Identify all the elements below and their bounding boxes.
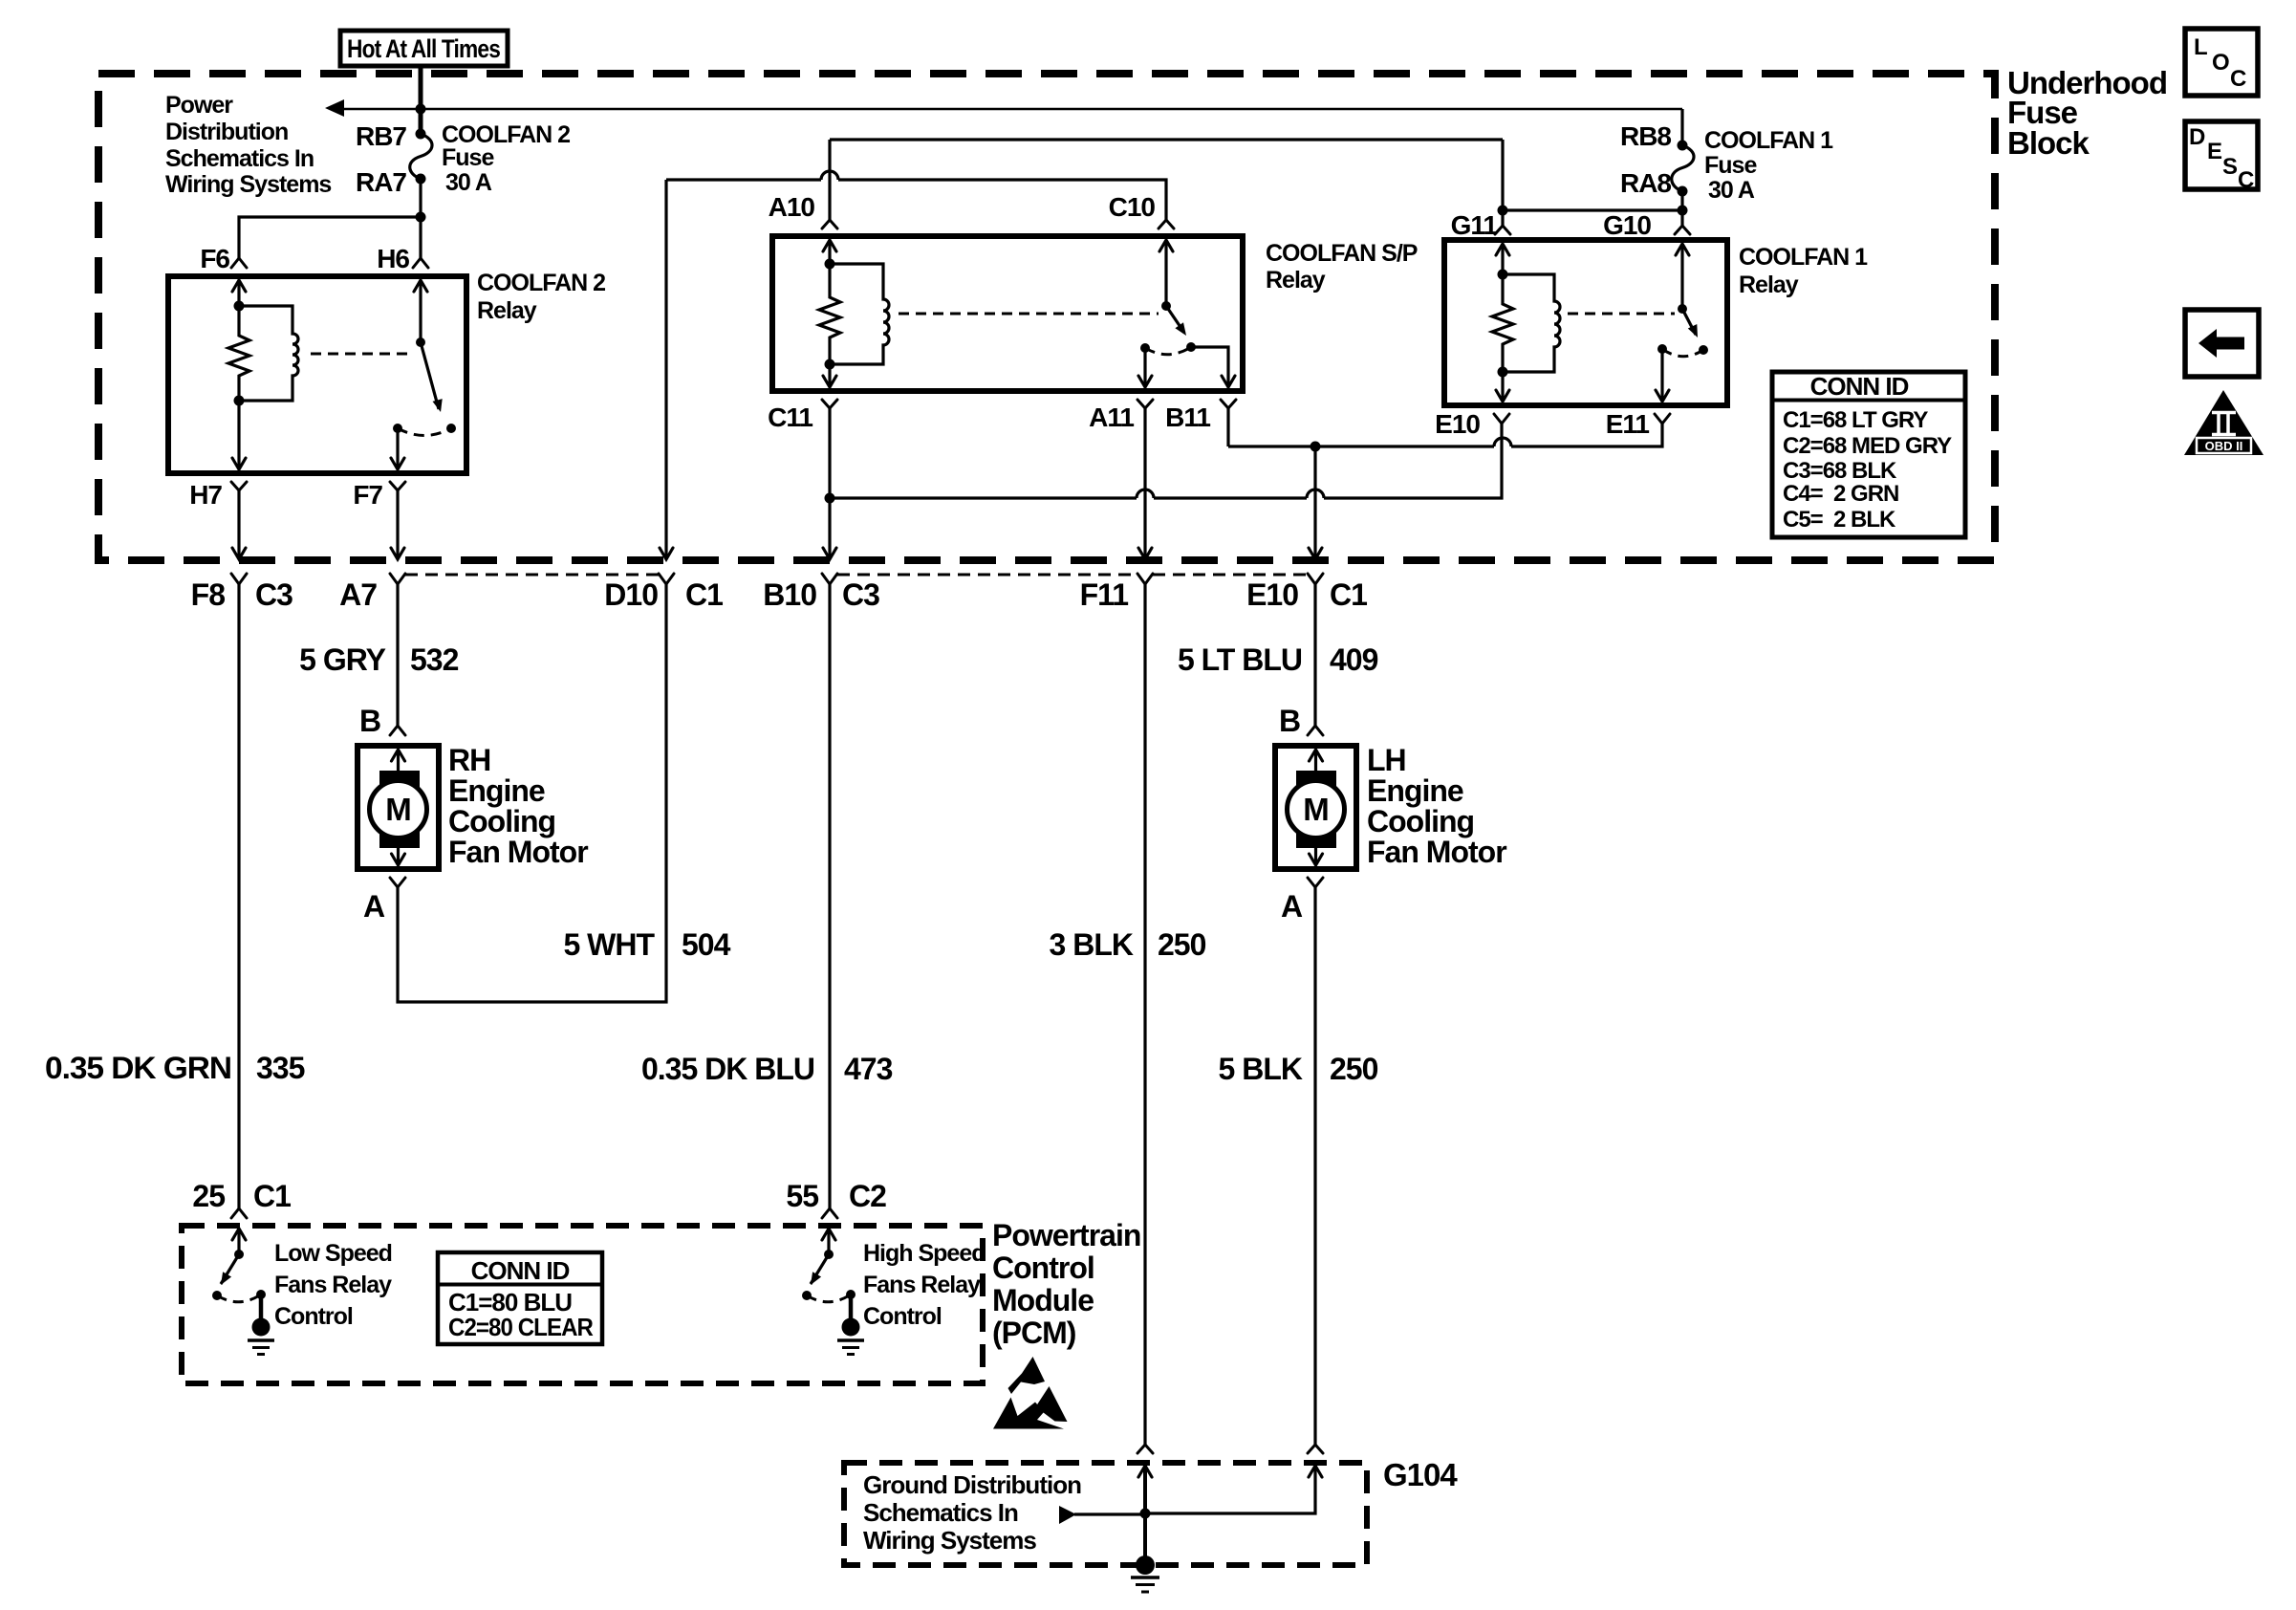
connector D10/C1 xyxy=(659,574,674,584)
svg-text:532: 532 xyxy=(410,642,459,677)
label Low Speed Fans Relay Control xyxy=(274,1240,392,1330)
connector F8/C3 xyxy=(231,574,247,584)
dashed actuation link CF1 xyxy=(1568,313,1675,315)
svg-text:RA8: RA8 xyxy=(1620,168,1671,198)
svg-text:0.35 DK BLU: 0.35 DK BLU xyxy=(641,1052,814,1086)
svg-text:C: C xyxy=(2230,66,2246,92)
connector B10/C3 xyxy=(822,574,837,584)
svg-text:G11: G11 xyxy=(1451,210,1498,240)
svg-text:A7: A7 xyxy=(339,577,377,612)
svg-text:250: 250 xyxy=(1158,927,1206,962)
node junction at H6 feed xyxy=(416,104,426,115)
label E10 C1 xyxy=(1246,577,1367,612)
svg-text:High Speed: High Speed xyxy=(863,1240,986,1267)
svg-text:COOLFAN 2: COOLFAN 2 xyxy=(477,270,605,296)
conn id table fuse block xyxy=(1772,372,1965,537)
svg-text:F8: F8 xyxy=(191,577,226,612)
wire coil to H7 with arrow xyxy=(232,401,246,469)
svg-text:C11: C11 xyxy=(768,402,812,432)
svg-text:504: 504 xyxy=(682,927,731,962)
arrow B10 wire exits fuse block xyxy=(823,548,836,559)
label B10 C3 xyxy=(763,577,879,612)
wire A10 feed from fuse xyxy=(830,140,1503,220)
connector fork E11 xyxy=(1655,414,1670,424)
svg-text:C2=68 MED GRY: C2=68 MED GRY xyxy=(1783,433,1952,459)
wire from Hot At All Times down to RB7 xyxy=(419,66,423,134)
connector E10/C1 xyxy=(1308,574,1323,584)
svg-text:F7: F7 xyxy=(353,480,382,510)
svg-text:C2: C2 xyxy=(849,1179,886,1213)
svg-text:Fans Relay: Fans Relay xyxy=(863,1272,981,1298)
label Powertrain Control Module PCM xyxy=(992,1218,1140,1350)
wire coil to C11 with arrow xyxy=(823,364,836,387)
wire switch moving contact to B11 xyxy=(1191,347,1235,387)
svg-text:COOLFAN 1: COOLFAN 1 xyxy=(1739,244,1868,271)
svg-text:25: 25 xyxy=(192,1179,225,1213)
connector fork H7 xyxy=(231,482,247,558)
svg-text:Distribution: Distribution xyxy=(165,119,288,145)
svg-text:G104: G104 xyxy=(1383,1457,1458,1492)
connector fork C11 xyxy=(822,400,837,558)
svg-text:L: L xyxy=(2194,34,2207,60)
svg-text:B: B xyxy=(359,704,380,738)
svg-text:C10: C10 xyxy=(1109,192,1156,222)
svg-text:335: 335 xyxy=(256,1051,305,1085)
svg-text:CONN ID: CONN ID xyxy=(471,1256,570,1285)
wire ground distribution arrow xyxy=(1059,1506,1145,1524)
switch low speed fans relay control xyxy=(212,1250,266,1302)
arrow D10 wire exits fuse block xyxy=(660,548,673,559)
icon DESC box xyxy=(2185,121,2258,193)
svg-text:Powertrain: Powertrain xyxy=(992,1218,1140,1252)
fuse COOLFAN 1 Fuse 30 A xyxy=(1672,141,1694,197)
relay COOLFAN S/P box xyxy=(772,236,1243,391)
svg-text:E10: E10 xyxy=(1435,409,1480,439)
svg-text:F6: F6 xyxy=(200,244,229,273)
label 0.35 DK BLU 473 xyxy=(641,1052,893,1086)
svg-text:Relay: Relay xyxy=(477,297,537,324)
label 5 GRY 532 xyxy=(299,642,458,677)
wire F8 to PCM 25 xyxy=(237,584,240,1208)
svg-text:Engine: Engine xyxy=(1367,773,1463,808)
arrow A7 wire exits fuse block xyxy=(391,548,404,559)
switch relay S/P xyxy=(1140,301,1196,355)
svg-text:C1=68 LT GRY: C1=68 LT GRY xyxy=(1783,407,1928,433)
svg-text:M: M xyxy=(385,792,411,827)
switch high speed fans relay control xyxy=(802,1250,856,1302)
svg-text:A10: A10 xyxy=(769,192,815,222)
fuse COOLFAN 2 Fuse 30 A xyxy=(410,129,432,185)
wire B10 to PCM 55 xyxy=(828,584,831,1208)
svg-text:C3=68 BLK: C3=68 BLK xyxy=(1783,458,1897,484)
connector fork F6 xyxy=(231,258,247,268)
svg-text:30 A: 30 A xyxy=(445,169,492,196)
svg-text:C5= 2 BLK: C5= 2 BLK xyxy=(1783,507,1896,533)
svg-text:C3: C3 xyxy=(842,577,879,612)
svg-text:M: M xyxy=(1303,792,1329,827)
node coil bottom CF1 xyxy=(1498,367,1508,378)
pin arrow A10 into relay xyxy=(823,240,836,264)
svg-text:Relay: Relay xyxy=(1266,267,1326,294)
svg-text:Hot At All Times: Hot At All Times xyxy=(347,34,500,63)
svg-text:(PCM): (PCM) xyxy=(992,1316,1076,1350)
pin arrow C10 into relay xyxy=(1159,240,1173,306)
svg-text:250: 250 xyxy=(1330,1052,1378,1086)
label LH Engine Cooling Fan Motor xyxy=(1367,743,1506,869)
svg-text:Power: Power xyxy=(165,92,233,119)
label COOLFAN 2 Fuse 30 A xyxy=(442,121,570,196)
svg-text:RB7: RB7 xyxy=(356,121,406,151)
svg-text:H6: H6 xyxy=(377,244,409,273)
svg-text:55: 55 xyxy=(786,1179,818,1213)
svg-text:Fuse: Fuse xyxy=(1704,152,1757,179)
svg-text:CONN ID: CONN ID xyxy=(1810,372,1909,401)
svg-text:C2=80 CLEAR: C2=80 CLEAR xyxy=(448,1313,594,1341)
label 5 BLK 250 xyxy=(1219,1052,1378,1086)
wire B11/E11 link to LH fan feed xyxy=(1228,424,1662,446)
label 5 WHT 504 xyxy=(563,927,730,962)
wire D10 riser and C10 feed xyxy=(666,171,1166,558)
label D10 C1 xyxy=(604,577,723,612)
wire C11/E10 ground-side link xyxy=(830,424,1502,498)
switch relay 1 xyxy=(393,337,456,436)
pin arrow F6 into relay xyxy=(232,280,246,306)
svg-text:Engine: Engine xyxy=(448,773,545,808)
svg-text:Block: Block xyxy=(2007,125,2090,161)
connector fork G10 xyxy=(1675,226,1690,234)
svg-text:Ground Distribution: Ground Distribution xyxy=(863,1470,1081,1499)
node junction G104 xyxy=(1140,1509,1151,1519)
svg-text:Module: Module xyxy=(992,1283,1094,1317)
label Ground Distribution Schematics In Wiring Systems xyxy=(863,1470,1081,1555)
svg-text:COOLFAN 1: COOLFAN 1 xyxy=(1704,127,1833,154)
connector fork PCM 55 xyxy=(822,1208,837,1218)
conn id table PCM xyxy=(438,1252,602,1344)
label 5 LT BLU 409 xyxy=(1178,642,1378,677)
ground G104 xyxy=(1131,1556,1159,1592)
node coil top S/P xyxy=(825,259,835,270)
pin arrow F11 into G104 xyxy=(1138,1466,1152,1557)
connector fork B11 xyxy=(1221,400,1236,446)
wire H6 drop xyxy=(419,217,422,258)
wire A7 to RH motor B xyxy=(396,584,399,726)
svg-text:RH: RH xyxy=(448,743,490,777)
svg-text:LH: LH xyxy=(1367,743,1406,777)
node junction G11 xyxy=(1498,206,1508,216)
svg-text:Relay: Relay xyxy=(1739,272,1799,298)
svg-text:Schematics In: Schematics In xyxy=(165,145,314,172)
svg-text:A: A xyxy=(363,889,385,924)
motor RH engine cooling fan xyxy=(357,746,439,869)
svg-text:Cooling: Cooling xyxy=(1367,804,1474,838)
svg-text:C4= 2 GRN: C4= 2 GRN xyxy=(1783,481,1898,507)
label RH Engine Cooling Fan Motor xyxy=(448,743,588,869)
pin arrow 55 into PCM xyxy=(822,1229,835,1254)
ground distribution dashed box G104 xyxy=(844,1463,1367,1565)
esd symbol xyxy=(993,1357,1068,1429)
svg-text:Cooling: Cooling xyxy=(448,804,555,838)
connector dashed line B10 to F11 xyxy=(837,574,1137,577)
icon LOC box xyxy=(2185,29,2258,96)
pin arrow 25 into PCM xyxy=(232,1229,246,1254)
resistor CF1 coil shunt xyxy=(1492,274,1513,372)
arrow F8 wire exits fuse block xyxy=(232,548,246,559)
relay COOLFAN 1 box xyxy=(1444,240,1727,405)
label 25 C1 xyxy=(192,1179,291,1213)
svg-text:5 LT BLU: 5 LT BLU xyxy=(1178,642,1302,677)
svg-text:A: A xyxy=(1281,889,1303,924)
label 0.35 DK GRN 335 xyxy=(45,1051,305,1085)
connector fork PCM 25 xyxy=(231,1208,247,1218)
wire switch output A11 with arrow xyxy=(1138,348,1152,387)
svg-text:Fans Relay: Fans Relay xyxy=(274,1272,392,1298)
label COOLFAN 1 Fuse 30 A xyxy=(1704,127,1833,204)
svg-text:OBD II: OBD II xyxy=(2205,439,2243,453)
ground high speed control xyxy=(837,1295,864,1355)
svg-text:3 BLK: 3 BLK xyxy=(1050,927,1134,962)
node coil top CF1 xyxy=(1498,270,1508,280)
node coil bottom S/P xyxy=(825,359,835,370)
motor LH engine cooling fan xyxy=(1275,746,1356,869)
connector fork C10 xyxy=(1159,220,1174,228)
node coil top xyxy=(234,301,245,312)
svg-text:Fan Motor: Fan Motor xyxy=(448,835,588,869)
label F8 C3 xyxy=(191,577,292,612)
power distribution feed line xyxy=(342,108,1682,111)
svg-text:Control: Control xyxy=(863,1303,942,1330)
connector fork LH motor B xyxy=(1308,726,1323,735)
svg-text:B10: B10 xyxy=(763,577,816,612)
connector fork RH motor B xyxy=(390,726,405,735)
svg-text:0.35 DK GRN: 0.35 DK GRN xyxy=(45,1051,231,1085)
svg-text:E10: E10 xyxy=(1246,577,1298,612)
svg-text:C3: C3 xyxy=(255,577,292,612)
node junction C11 to E10 link xyxy=(825,493,835,504)
arrow F11 wire exits fuse block xyxy=(1138,548,1152,559)
svg-text:B11: B11 xyxy=(1165,402,1210,432)
connector fork H6 xyxy=(413,258,428,268)
svg-text:Schematics In: Schematics In xyxy=(863,1498,1018,1527)
svg-text:S: S xyxy=(2222,154,2238,180)
ground low speed control xyxy=(248,1295,274,1355)
PCM dashed box xyxy=(182,1226,983,1383)
underhood fuse block dashed box xyxy=(98,74,1995,560)
pin arrow G10 into relay xyxy=(1676,244,1689,309)
node coil bottom xyxy=(234,396,245,406)
coil CF1 winding xyxy=(1503,274,1560,372)
dashed actuation link S/P xyxy=(899,313,1159,315)
wire F11 to G104 xyxy=(1143,584,1146,1445)
pin arrow H6 into relay xyxy=(414,280,427,342)
switch relay CF1 xyxy=(1657,304,1708,357)
svg-text:473: 473 xyxy=(844,1052,893,1086)
arrow E10 wire exits fuse block xyxy=(1309,548,1322,559)
connector dashed line A7 to D10 xyxy=(405,574,659,577)
connector fork A11 xyxy=(1137,400,1153,558)
wire switch output E11 with arrow xyxy=(1656,349,1669,402)
label High Speed Fans Relay Control xyxy=(863,1240,986,1330)
label COOLFAN 1 Relay xyxy=(1739,244,1868,298)
pin arrow G11 into relay xyxy=(1496,244,1509,274)
node junction F6/H6 xyxy=(416,212,426,223)
svg-text:Fuse: Fuse xyxy=(442,144,494,171)
wire RA8 to G11/G10 xyxy=(1503,140,1682,226)
svg-text:RB8: RB8 xyxy=(1620,121,1671,151)
svg-text:D10: D10 xyxy=(604,577,658,612)
connector F11 xyxy=(1137,574,1153,584)
wire LH motor A to G104 xyxy=(1313,887,1316,1445)
Hot At All Times box xyxy=(340,31,508,66)
coil S/P winding xyxy=(830,264,889,364)
connector dashed line F11 to E10 xyxy=(1153,574,1308,577)
relay COOLFAN 2 box xyxy=(168,276,466,473)
svg-text:30 A: 30 A xyxy=(1708,177,1755,204)
svg-text:Control: Control xyxy=(274,1303,353,1330)
svg-text:C1: C1 xyxy=(685,577,723,612)
node junction E10 C1 wire xyxy=(1310,442,1321,452)
svg-text:C1: C1 xyxy=(253,1179,291,1213)
wire RA7 to junction xyxy=(419,179,422,217)
label Power Distribution Schematics In Wiring Systems xyxy=(165,92,331,198)
label Underhood Fuse Block xyxy=(2007,65,2167,161)
wire E10 C1 drop xyxy=(1313,446,1316,558)
wire branch to F6 xyxy=(239,217,421,258)
connector fork LH motor A xyxy=(1308,878,1323,887)
label 55 C2 xyxy=(786,1179,886,1213)
wire RH motor A to D10 xyxy=(398,584,666,1002)
label COOLFAN 2 Relay xyxy=(477,270,605,324)
svg-text:O: O xyxy=(2212,50,2229,76)
svg-text:Wiring Systems: Wiring Systems xyxy=(863,1526,1036,1555)
svg-text:D: D xyxy=(2189,124,2205,150)
wire E10 C1 to LH motor B xyxy=(1313,584,1316,726)
svg-text:Control: Control xyxy=(992,1251,1094,1285)
label 3 BLK 250 xyxy=(1050,927,1206,962)
pin arrow 5BLK into G104 xyxy=(1145,1466,1322,1513)
svg-text:F11: F11 xyxy=(1080,577,1129,612)
connector fork E10 relay xyxy=(1494,414,1509,424)
svg-text:Wiring Systems: Wiring Systems xyxy=(165,171,331,198)
svg-text:5 GRY: 5 GRY xyxy=(299,642,386,677)
svg-text:A11: A11 xyxy=(1089,402,1134,432)
svg-text:RA7: RA7 xyxy=(356,167,406,197)
svg-text:E: E xyxy=(2207,139,2222,164)
svg-text:H7: H7 xyxy=(189,480,222,510)
svg-text:5 BLK: 5 BLK xyxy=(1219,1052,1303,1086)
arrowhead to power distribution xyxy=(325,99,344,117)
svg-text:COOLFAN S/P: COOLFAN S/P xyxy=(1266,240,1418,267)
resistor S/P coil shunt xyxy=(819,264,840,364)
svg-text:409: 409 xyxy=(1330,642,1378,677)
wire switch output F7 with arrow xyxy=(391,428,404,469)
connector fork G104 F11 xyxy=(1137,1445,1153,1453)
svg-text:G10: G10 xyxy=(1603,210,1651,240)
svg-text:C1: C1 xyxy=(1330,577,1367,612)
wire RB8 feed corner xyxy=(1680,109,1683,145)
svg-text:5 WHT: 5 WHT xyxy=(563,927,655,962)
svg-text:Low Speed: Low Speed xyxy=(274,1240,392,1267)
connector fork G11 xyxy=(1495,226,1510,234)
node junction G10 xyxy=(1678,206,1688,216)
coil relay winding xyxy=(239,306,298,401)
dashed actuation link relay 1 xyxy=(311,353,411,356)
connector fork RH motor A xyxy=(390,878,405,887)
svg-text:B: B xyxy=(1279,704,1300,738)
label COOLFAN S/P Relay xyxy=(1266,240,1418,294)
icon back arrow box xyxy=(2185,310,2259,377)
connector fork A10 xyxy=(822,220,837,228)
wire coil to E10 with arrow xyxy=(1496,372,1509,402)
svg-text:E11: E11 xyxy=(1606,409,1650,439)
svg-text:C: C xyxy=(2238,167,2254,193)
svg-text:Fan Motor: Fan Motor xyxy=(1367,835,1506,869)
icon OBD II triangle xyxy=(2184,390,2264,455)
connector A7 xyxy=(390,574,405,584)
connector fork G104 5BLK xyxy=(1308,1445,1323,1453)
resistor relay coil shunt xyxy=(228,306,249,401)
connector fork F7 xyxy=(390,482,405,558)
